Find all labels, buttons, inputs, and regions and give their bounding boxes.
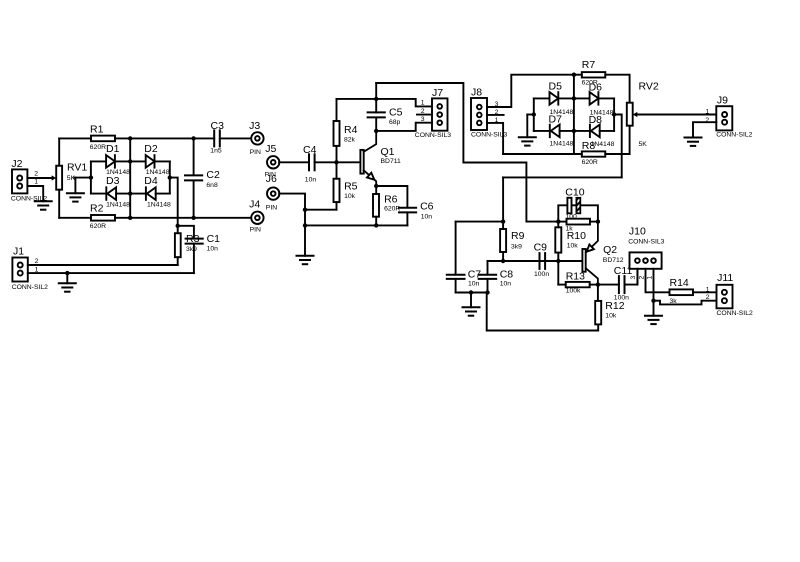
svg-text:PIN: PIN [250, 227, 261, 234]
connector J1 [12, 258, 27, 282]
resistor R3 [175, 233, 181, 257]
junction J1.1 / ground [65, 271, 69, 275]
capacitor C5 [368, 112, 385, 117]
RV2 wiper arrow [633, 112, 638, 117]
ground (J9) [685, 138, 702, 146]
wire J10.1 down [653, 269, 655, 301]
svg-text:10k: 10k [605, 313, 617, 320]
pin J4 [251, 212, 263, 224]
capacitor C9 [540, 253, 546, 269]
svg-text:10k: 10k [567, 243, 579, 250]
potentiometer RV2 [627, 103, 633, 126]
junction J10.1 / ground [651, 299, 655, 303]
junction (top row / C2) [191, 136, 195, 140]
junction Q1 emitter [374, 184, 378, 188]
capacitor C8 [479, 275, 497, 279]
svg-text:C5: C5 [389, 106, 403, 118]
svg-text:1N4148: 1N4148 [106, 202, 130, 209]
svg-text:J2: J2 [11, 158, 22, 170]
wire D1 to D2 [116, 160, 146, 162]
svg-text:R2: R2 [90, 202, 104, 214]
svg-text:D5: D5 [549, 81, 563, 93]
svg-text:10k: 10k [344, 193, 356, 200]
wire to ground (RV1) [74, 178, 76, 194]
svg-text:CONN-SIL3: CONN-SIL3 [471, 132, 507, 139]
junction R3/C1 top [176, 224, 180, 228]
wire R6 top stem [375, 186, 377, 194]
svg-text:1k: 1k [566, 226, 574, 233]
wire R13 to collector node [590, 284, 598, 286]
svg-text:10n: 10n [305, 176, 317, 183]
svg-text:C1: C1 [207, 233, 221, 245]
junction collector feedback top [374, 97, 378, 101]
wire C2 bottom [193, 181, 195, 218]
junction D5-D6 row [572, 96, 576, 100]
diode D4 [146, 186, 156, 200]
svg-text:J3: J3 [249, 120, 260, 132]
svg-text:C3: C3 [211, 120, 225, 132]
wire RV2 bottom stem [629, 126, 631, 154]
svg-text:3: 3 [630, 276, 637, 280]
junction (top row / bridge mid) [128, 136, 132, 140]
wire to D5 [534, 97, 550, 99]
wire J2.2 to RV1 wiper [27, 177, 52, 179]
junction R10 bottom / base row [556, 259, 560, 263]
wire bridge2 left tap [527, 114, 534, 116]
transistor Q1 [360, 131, 376, 186]
svg-text:Q1: Q1 [381, 146, 395, 158]
svg-text:3k9: 3k9 [186, 246, 197, 253]
wire bridge2 output row [503, 176, 622, 178]
junction C5 / collector [374, 129, 378, 133]
resistor R8 [582, 151, 606, 156]
wire D7 to D8 [560, 130, 590, 132]
svg-text:10n: 10n [500, 281, 512, 288]
wire J1.2 row [28, 264, 177, 266]
svg-text:6n8: 6n8 [206, 182, 218, 189]
wire R2 to J4 (bottom row) [115, 217, 251, 219]
wire to R11 [558, 221, 566, 223]
wire C1 bottom [193, 244, 195, 274]
diode D1 [106, 154, 115, 168]
svg-text:R14: R14 [670, 277, 689, 289]
svg-text:C2: C2 [206, 169, 220, 181]
svg-text:J8: J8 [471, 87, 482, 99]
capacitor C10 (trimmer) [567, 198, 580, 214]
resistor R7 [582, 72, 606, 77]
svg-text:620R: 620R [90, 223, 106, 230]
svg-text:1: 1 [646, 276, 653, 280]
wire J2.1 to ground [27, 186, 43, 201]
ground (J2 pin1) [35, 201, 52, 209]
wire R9 bottom stem [502, 252, 504, 261]
junction R10 top / feedback [556, 219, 560, 223]
wire to J7 pin3 [376, 123, 432, 131]
wire to ground (J1) [66, 273, 68, 283]
svg-text:1N4148: 1N4148 [146, 169, 170, 176]
junction bridge1 right node [168, 175, 172, 179]
wire J1.2 to R3 [176, 264, 179, 266]
svg-text:1: 1 [706, 286, 710, 293]
ground (bridge2) [519, 137, 536, 145]
svg-text:68p: 68p [389, 119, 401, 126]
wire D5 to D6 [559, 97, 589, 99]
wire bridge2 mid vertical [573, 75, 575, 154]
transistor Q2 [582, 222, 598, 285]
wire J10.2 to R14 [646, 269, 670, 293]
wire D4 to right node [156, 193, 170, 195]
svg-text:D2: D2 [144, 143, 158, 155]
svg-text:1N4148: 1N4148 [106, 169, 130, 176]
connector J2 [12, 169, 27, 193]
wire bridge2 right node [613, 98, 615, 130]
svg-text:RV1: RV1 [67, 161, 87, 173]
resistor R13 [566, 282, 590, 287]
pin J6 [267, 187, 279, 199]
diode D3 [106, 186, 116, 200]
svg-text:C10: C10 [565, 186, 584, 198]
wire emitter ground rail [305, 224, 407, 226]
wire bridge1 to R3 [170, 178, 178, 226]
wire C7 top stem [455, 222, 457, 275]
wire J5 to C4 [279, 161, 309, 163]
wire emitter to C6 [376, 186, 407, 207]
svg-text:10n: 10n [421, 214, 433, 221]
wire J1.1 row [28, 272, 194, 274]
wire C10 loop [558, 205, 598, 221]
svg-text:J1: J1 [13, 246, 24, 258]
svg-text:CONN-SIL2: CONN-SIL2 [717, 310, 753, 317]
wire to C11 [598, 284, 619, 286]
wire R3 bottom stem [177, 257, 179, 265]
svg-text:1N4148: 1N4148 [590, 109, 614, 116]
wire R14 to J11.1 [693, 291, 717, 293]
wire R4 top stem [336, 99, 338, 121]
wire bridge2 tap down to output row [614, 115, 622, 178]
wire J9.2 to ground [693, 122, 716, 137]
svg-text:D4: D4 [144, 175, 158, 187]
junction bridge2 left node [532, 112, 536, 116]
wire R7 to RV2 top [605, 75, 629, 103]
svg-text:1: 1 [421, 100, 425, 107]
svg-text:C4: C4 [303, 144, 317, 156]
svg-text:2: 2 [706, 294, 710, 301]
capacitor C7 [447, 275, 465, 279]
junction (bottom row / bridge mid) [128, 216, 132, 220]
resistor R5 [334, 179, 340, 202]
svg-text:1n5: 1n5 [210, 148, 222, 155]
resistor R12 [595, 301, 601, 325]
connector J8 [471, 98, 487, 130]
ground (RV1) [67, 193, 84, 201]
svg-text:J9: J9 [717, 94, 728, 106]
wire D6 to right node [600, 97, 615, 99]
junction bridge2 right node [612, 112, 616, 116]
connector J11 [717, 285, 733, 309]
wire C5 top stem [375, 99, 377, 113]
connector J10 [630, 252, 662, 268]
wire to D3 [91, 193, 106, 195]
wire R11 to right node [590, 221, 598, 223]
junction R9 top [501, 219, 505, 223]
junction D7-D8 row [572, 129, 576, 133]
capacitor C2 [185, 175, 202, 180]
wire to D1 [91, 160, 106, 162]
wire jog to J11.2 [654, 301, 717, 305]
svg-text:R9: R9 [511, 230, 525, 242]
svg-text:620R: 620R [384, 206, 400, 213]
resistor R2 [91, 215, 115, 221]
svg-text:PIN: PIN [266, 204, 277, 211]
junction R6 / rail [374, 223, 378, 227]
pin J3 [251, 132, 263, 144]
wire R5 bottom row [305, 209, 337, 211]
resistor R1 [91, 136, 115, 142]
wire J8.1 down to R8 row [487, 123, 503, 154]
junction J6/R5 row [303, 208, 307, 212]
pin J5 [267, 156, 279, 168]
resistor R6 [373, 194, 379, 217]
wire C8 top stem [487, 261, 489, 275]
wire D8 to right node [600, 130, 614, 132]
resistor R14 [670, 289, 694, 295]
wire RV1 bottom [58, 190, 60, 218]
connector J9 [716, 106, 732, 130]
svg-text:D1: D1 [106, 143, 120, 155]
svg-text:R7: R7 [582, 59, 596, 71]
wire left to R1 [59, 137, 91, 139]
svg-text:3k: 3k [670, 298, 678, 305]
wire bridge1 mid vertical [129, 138, 131, 217]
svg-text:CONN-SIL3: CONN-SIL3 [415, 132, 451, 139]
svg-text:R8: R8 [582, 140, 596, 152]
svg-text:2: 2 [421, 108, 425, 115]
wire to ground (bridge2) [526, 115, 528, 138]
wire RV1 top [58, 138, 60, 165]
resistor R11 (1k) [567, 219, 591, 225]
wire phase row (C8/C9/Q2 base) [488, 260, 583, 262]
wire C2 top [193, 138, 195, 175]
svg-text:R13: R13 [566, 270, 585, 282]
wire C3 to J3 [220, 137, 251, 139]
diode D6 [590, 91, 599, 105]
svg-text:C9: C9 [534, 242, 548, 254]
junction bridge1 left node [89, 175, 93, 179]
svg-text:CONN-SIL2: CONN-SIL2 [12, 284, 48, 291]
junction C10 right / Q2 emitter [596, 219, 600, 223]
wire to ground (J10) [653, 301, 655, 316]
svg-text:BD712: BD712 [603, 257, 624, 264]
wire R12 top stem [597, 285, 599, 301]
svg-text:C6: C6 [420, 200, 434, 212]
svg-text:5K: 5K [639, 141, 648, 148]
wire R4 bottom stem [336, 146, 338, 162]
wire rail to ground [304, 225, 306, 255]
junction R9 bottom [501, 259, 505, 263]
diode D2 [146, 154, 155, 168]
svg-text:2: 2 [638, 276, 645, 280]
capacitor C11 [619, 276, 625, 293]
svg-text:Q2: Q2 [603, 244, 617, 256]
capacitor C4 [309, 154, 315, 170]
junction C8 / return wire [485, 290, 489, 294]
wire RV1 tap row [74, 177, 91, 179]
svg-text:RV2: RV2 [639, 80, 659, 92]
wire up from junction [375, 83, 377, 99]
wire C7/C8 ground row [456, 292, 488, 294]
ground (emitter rail) [297, 256, 314, 264]
wire J8.1 row to R8 [503, 153, 582, 155]
svg-text:J10: J10 [629, 226, 646, 238]
wire R9 top stem [502, 222, 504, 229]
svg-text:R4: R4 [344, 124, 358, 136]
wire C6 bottom [406, 212, 408, 225]
svg-text:3: 3 [421, 116, 425, 123]
wire R6 bottom stem [375, 217, 377, 226]
svg-text:3k9: 3k9 [511, 243, 522, 250]
svg-text:BD711: BD711 [381, 158, 401, 165]
wire down to R9 node [502, 177, 504, 221]
svg-text:5K: 5K [67, 175, 76, 182]
junction R7 row / bridge2 mid [572, 73, 576, 77]
resistor R10 [555, 227, 561, 252]
resistor R4 [334, 121, 340, 146]
junction (bottom row / C2) [191, 216, 195, 220]
wire J7 pin2 stub [417, 114, 432, 116]
svg-text:J4: J4 [249, 198, 260, 210]
ground (C7/C8) [463, 307, 480, 315]
ground (J1 pin1) [59, 283, 76, 291]
svg-text:PIN: PIN [250, 149, 261, 156]
wire feedback Q1 collector to R10 node [376, 83, 558, 222]
wire C4 to Q1 base [315, 161, 361, 163]
wire R8 to RV2 stem [605, 153, 629, 155]
svg-text:10n: 10n [207, 246, 219, 253]
wire C11 to J10.3 [625, 269, 638, 285]
resistor R9 [500, 229, 506, 252]
wire R5 top stem [336, 162, 338, 178]
capacitor C6 [399, 208, 416, 213]
wire to D7 [534, 130, 550, 132]
wire C8 bottom stem [487, 279, 489, 293]
svg-text:1: 1 [34, 179, 38, 186]
wire R3 top stem [177, 226, 179, 233]
wire RV2 wiper to J9.1 [637, 114, 716, 116]
wire D2 to right node [156, 160, 170, 162]
svg-text:R12: R12 [605, 300, 624, 312]
wire R12 bottom return to C8 [487, 293, 599, 331]
connector J7 [432, 98, 448, 130]
diode D5 [550, 91, 559, 105]
diode D7 [550, 124, 560, 138]
svg-text:R1: R1 [90, 123, 104, 135]
junction base node [334, 160, 338, 164]
wire R10 bottom stem [557, 253, 559, 261]
wire C5 bottom stem [375, 117, 377, 130]
svg-text:D6: D6 [589, 81, 603, 93]
svg-text:CONN-SIL2: CONN-SIL2 [716, 131, 752, 138]
wire to ground (C7/C8) [470, 293, 472, 308]
wire to R13 [558, 284, 565, 286]
svg-text:R5: R5 [344, 180, 358, 192]
wire bridge2 left node [533, 98, 535, 130]
wire top row to J7 pin1 [337, 99, 433, 107]
wire R9 node to C7 [456, 221, 504, 223]
svg-text:1N4148: 1N4148 [550, 109, 574, 116]
svg-text:1N4148: 1N4148 [147, 202, 171, 209]
svg-text:C8: C8 [500, 269, 514, 281]
svg-text:1: 1 [705, 108, 709, 115]
svg-text:R6: R6 [384, 193, 398, 205]
svg-text:100k: 100k [566, 288, 581, 295]
svg-text:620R: 620R [582, 159, 598, 166]
svg-text:J11: J11 [717, 272, 733, 284]
svg-text:620R: 620R [90, 144, 106, 151]
wire base node down to R13 [557, 261, 559, 285]
svg-text:2: 2 [34, 171, 38, 178]
junction D3-D4 row [128, 191, 132, 195]
svg-text:J5: J5 [265, 143, 276, 155]
wire bridge1 right node [169, 161, 171, 193]
junction D1-D2 row [128, 159, 132, 163]
RV1 wiper arrow [52, 175, 57, 180]
svg-text:10n: 10n [468, 281, 480, 288]
ground (J10) [645, 316, 662, 324]
wire bridge1 left node [90, 161, 92, 193]
svg-text:J6: J6 [266, 173, 277, 185]
wire J6 down to rail [279, 194, 305, 226]
wire D3 to D4 [116, 193, 146, 195]
svg-text:D3: D3 [106, 175, 120, 187]
svg-text:CONN-SIL3: CONN-SIL3 [628, 238, 664, 245]
svg-text:1N4148: 1N4148 [550, 140, 574, 147]
capacitor C1 [186, 239, 203, 244]
wire J10.3 down [636, 269, 638, 285]
potentiometer RV1 [56, 166, 62, 190]
wire J8.3 to R7 [487, 75, 574, 107]
junction ground row [469, 290, 473, 294]
wire R5 bottom stem [336, 202, 338, 210]
wire R1 to C3 (top row) [115, 137, 214, 139]
wire R10 top stem [557, 222, 559, 228]
svg-text:100n: 100n [534, 271, 549, 278]
diode D8 [590, 124, 600, 138]
svg-text:82k: 82k [344, 137, 356, 144]
capacitor C3 [214, 130, 220, 146]
wire to C1 top [178, 226, 194, 239]
wire left to R2 [59, 217, 91, 219]
junction J6/ground rail [303, 223, 307, 227]
svg-text:J7: J7 [432, 87, 443, 99]
junction Q2 collector / C11 / R12 [596, 282, 600, 286]
wire J8.2 stub [487, 114, 504, 116]
wire to R7 [574, 74, 582, 76]
wire C7 bottom stem [455, 279, 457, 293]
